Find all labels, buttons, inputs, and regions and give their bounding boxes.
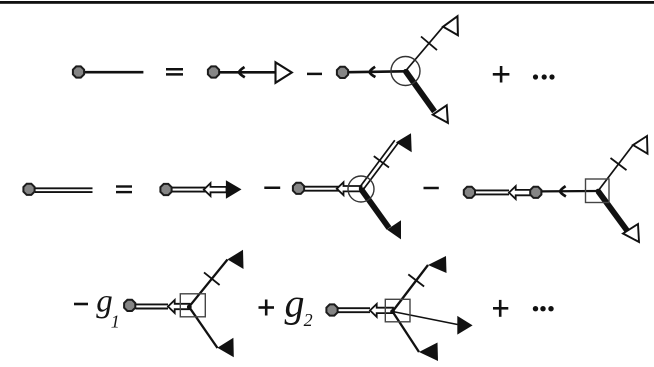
svg-text:2: 2 [304, 310, 313, 330]
svg-text:g: g [285, 281, 305, 326]
svg-text:1: 1 [111, 312, 120, 332]
